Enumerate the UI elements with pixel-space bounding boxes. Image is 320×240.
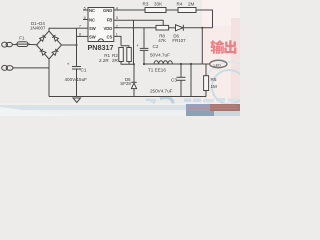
svg-text:6: 6 — [84, 16, 86, 20]
svg-text:R5: R5 — [211, 77, 217, 82]
wire output bus vertical — [201, 28, 203, 64]
svg-text:CS: CS — [106, 34, 112, 39]
capacitor C1 — [72, 66, 81, 68]
label 输出 output — [210, 40, 236, 54]
svg-text:PN8317: PN8317 — [88, 43, 114, 52]
wire T1 secondary line — [144, 63, 210, 65]
pin 1 stub CS wire — [114, 36, 121, 45]
wire secondary return — [190, 64, 192, 97]
svg-text:LED: LED — [214, 63, 222, 67]
svg-text:50V4.7uF: 50V4.7uF — [150, 52, 170, 57]
bridge diode d2 top-right — [52, 35, 58, 41]
svg-text:2.2R: 2.2R — [99, 58, 109, 63]
wire bridge bottom down to rail — [48, 59, 50, 97]
svg-text:NC: NC — [89, 8, 95, 13]
bridge diode d4 bottom-right — [52, 49, 58, 55]
wire fuse to bridge — [28, 43, 38, 45]
bridge rectifier D1-D4 diamond — [37, 31, 62, 59]
capacitor C3 — [180, 64, 182, 77]
background card — [0, 0, 240, 116]
svg-text:+: + — [67, 62, 70, 67]
bridge diode d1 top-left — [40, 35, 46, 41]
wire R3 to R4 — [166, 9, 178, 11]
inductor T1 winding — [154, 61, 172, 64]
pin 7 stub — [77, 27, 89, 29]
svg-text:FR107: FR107 — [172, 38, 186, 43]
junction dots — [143, 63, 145, 65]
diode D5 — [131, 81, 136, 83]
svg-text:R4: R4 — [177, 2, 183, 7]
svg-text:SW: SW — [89, 34, 96, 39]
svg-text:+: + — [136, 43, 139, 48]
wire R1 R2 bottom join — [121, 62, 134, 83]
IC U1 PN8317 box — [88, 8, 114, 42]
wire VDD to C2 — [143, 28, 145, 48]
wire R4 to output bus corner — [196, 10, 213, 28]
svg-text:SW: SW — [89, 26, 96, 31]
fuse F1 — [17, 42, 28, 47]
ground rail — [49, 96, 206, 98]
resistor R3 — [145, 8, 166, 13]
wire FB drop to sense node — [133, 20, 135, 64]
wire R8 to D6 — [169, 27, 176, 29]
resistor R8 — [156, 25, 169, 30]
svg-text:C3: C3 — [171, 78, 177, 83]
svg-text:VDD: VDD — [103, 26, 112, 31]
pin 3 stub FB wire — [114, 20, 163, 25]
svg-text:T1 EE16: T1 EE16 — [148, 68, 166, 73]
wire R1 R2 top bar — [121, 46, 129, 48]
svg-text:33K: 33K — [154, 2, 163, 7]
AC plug P1 (line) — [2, 42, 8, 47]
svg-text:2: 2 — [116, 24, 118, 28]
svg-text:F1: F1 — [19, 36, 25, 41]
ground symbol — [73, 98, 81, 103]
svg-text:GND: GND — [103, 8, 112, 13]
svg-text:SF28: SF28 — [120, 81, 131, 86]
resistor R2 — [127, 48, 132, 62]
node bus DC+ vertical — [76, 28, 78, 66]
wire SW join bar — [76, 28, 78, 36]
AC plug P2 (neutral) — [2, 65, 8, 70]
svg-text:8: 8 — [79, 33, 81, 37]
svg-text:47K: 47K — [158, 38, 166, 43]
svg-text:C2: C2 — [153, 44, 159, 49]
pin 6 stub — [83, 19, 88, 21]
diode D6 — [176, 25, 184, 31]
watermark circle — [212, 70, 246, 104]
svg-text:250V4.7uF: 250V4.7uF — [150, 88, 173, 93]
svg-text:1N4007: 1N4007 — [30, 26, 46, 31]
svg-text:C1: C1 — [81, 68, 87, 73]
svg-text:400V/15uF: 400V/15uF — [65, 77, 88, 82]
LED connector ellipse — [210, 60, 227, 67]
pin 4 stub + wire to R3 — [114, 9, 145, 11]
svg-text:NC: NC — [89, 18, 95, 23]
resistor R5 — [205, 64, 207, 76]
bottom strip — [0, 104, 240, 106]
resistor R4 — [178, 8, 196, 13]
wire plug2 to bridge bottom — [13, 67, 49, 69]
svg-text:4: 4 — [116, 6, 118, 10]
wire bridge top to SW bus — [49, 28, 77, 31]
svg-text:2R: 2R — [112, 58, 119, 63]
wire bridge right to C1 bus — [62, 44, 77, 46]
wire D6 to output bus — [183, 27, 212, 29]
pin 8 stub — [77, 35, 89, 37]
svg-text:5: 5 — [84, 6, 86, 10]
bridge diode d3 bottom-left — [40, 49, 46, 55]
resistor R1 — [119, 48, 124, 62]
svg-text:1: 1 — [116, 33, 118, 37]
svg-text:R3: R3 — [143, 2, 149, 7]
IC notch — [98, 39, 103, 42]
svg-text:FB: FB — [107, 18, 113, 23]
svg-text:1M: 1M — [211, 84, 218, 89]
wire plug to fuse — [12, 44, 17, 46]
svg-text:7: 7 — [79, 25, 81, 29]
svg-text:3: 3 — [116, 16, 118, 20]
svg-text:2M: 2M — [188, 2, 195, 7]
pin 2 stub VDD wire — [114, 27, 156, 29]
capacitor C2 — [140, 47, 149, 49]
pin 5 stub — [83, 9, 88, 11]
